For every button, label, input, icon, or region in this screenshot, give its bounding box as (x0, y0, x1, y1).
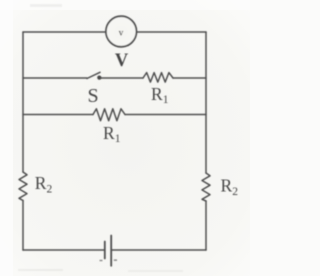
battery cell negative plate (short) (104, 242, 106, 259)
wire top-left segment (23, 31, 106, 33)
battery minus mark (100, 260, 103, 261)
switch S blade (87, 72, 100, 78)
svg-text:S: S (87, 85, 98, 107)
voltmeter V circle (106, 16, 137, 47)
wire left vertical lower (22, 201, 24, 251)
wire top-right segment (137, 31, 207, 33)
wire left vertical upper (22, 32, 24, 172)
resistor R2 left (19, 172, 27, 201)
wire bottom-left segment (23, 249, 104, 251)
wire middle line right of R1 (173, 77, 206, 79)
wire third line right (125, 114, 206, 116)
battery plus mark (114, 259, 117, 261)
svg-text:V: V (115, 51, 129, 71)
resistor R2 right (202, 173, 210, 201)
wire third line left (23, 114, 93, 116)
wire middle line switch to R1 (101, 77, 143, 79)
wire right vertical upper (205, 32, 207, 173)
wire middle line left of switch (23, 77, 87, 79)
wire bottom-right segment (112, 249, 206, 251)
battery cell positive plate (long) (110, 236, 112, 266)
resistor R1 lower (93, 109, 125, 121)
resistor R1 upper (143, 73, 173, 83)
switch S contact dot (97, 76, 101, 80)
wire right vertical lower (205, 201, 207, 250)
svg-text:v: v (119, 28, 124, 38)
